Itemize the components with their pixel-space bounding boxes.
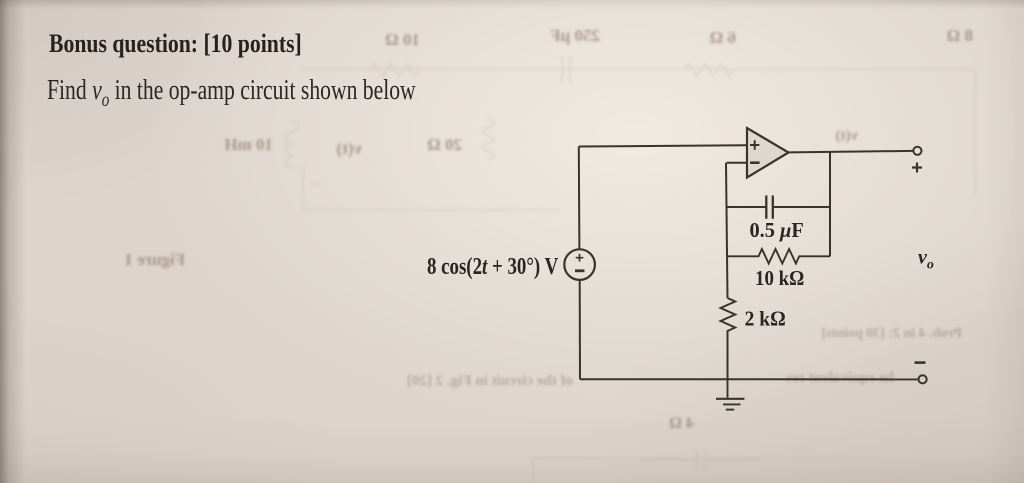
wire: below 2k to bottom rail <box>727 337 729 379</box>
op-amp U1 triangle <box>747 128 789 178</box>
label: 2 kOhm <box>745 308 786 331</box>
wire: capacitor row right <box>773 206 830 208</box>
svg-text:10 kΩ: 10 kΩ <box>755 267 804 290</box>
svg-text:0.5 μF: 0.5 μF <box>750 220 804 242</box>
label: 0.5 uF <box>750 220 804 242</box>
output - mark <box>915 361 926 364</box>
capacitor C1 0.5uF plates <box>766 196 773 219</box>
wire: top rail from source to op-amp + input <box>579 145 747 146</box>
output + mark <box>912 163 922 173</box>
wire: source top lead <box>578 147 581 250</box>
source VS1 minus mark <box>575 269 585 272</box>
wire: bottom rail <box>580 378 918 380</box>
label: 10 kOhm <box>755 267 804 290</box>
label: 8 cos(2t + 30) V <box>427 253 559 280</box>
op-amp noninverting + mark <box>750 140 759 149</box>
wire: left feedback rail down to 2k resistor <box>726 163 728 298</box>
op-amp inverting - mark <box>750 161 760 164</box>
wire: source bottom lead <box>579 280 581 379</box>
svg-text:vo: vo <box>918 247 934 273</box>
resistor R1 10k zigzag row <box>727 249 831 264</box>
svg-text:2 kΩ: 2 kΩ <box>745 308 786 331</box>
wire: inverting input stub <box>727 162 748 164</box>
wire: right feedback rail <box>829 152 831 257</box>
terminal: output - (open circle) <box>919 375 927 383</box>
source VS1 plus mark <box>576 254 584 262</box>
svg-text:8 cos(2t + 30°) V: 8 cos(2t + 30°) V <box>427 253 559 280</box>
ground symbol <box>727 379 729 398</box>
wire: capacitor row left <box>727 206 767 208</box>
subtitle line <box>47 76 416 110</box>
resistor R2 2k vertical zigzag <box>721 298 736 337</box>
terminal: output + (open circle) <box>913 147 921 155</box>
label: vo <box>918 247 934 273</box>
title line <box>49 31 302 57</box>
wire: op-amp output to + terminal <box>789 151 914 153</box>
source VS1: 8 cos(2t+30) V circle <box>564 249 595 280</box>
